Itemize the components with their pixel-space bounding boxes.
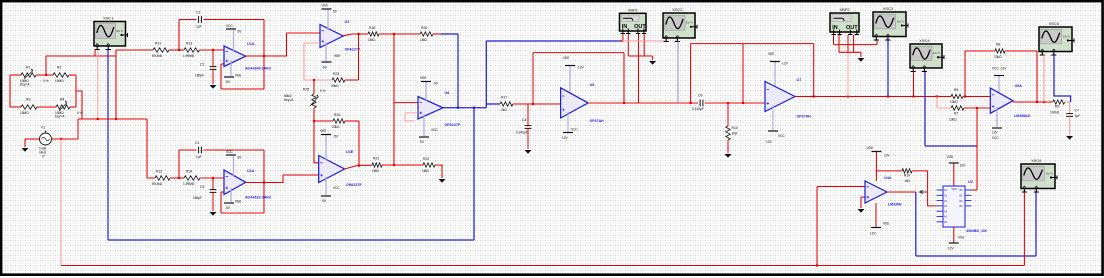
wire to U4A -in (817, 186, 865, 188)
wire XBP2 IN- (838, 35, 840, 52)
svg-text:4063BD_10V: 4063BD_10V (966, 229, 988, 233)
wire bridge right rail (75, 75, 77, 107)
wire R3 left (10, 106, 21, 108)
junction (45, 74, 47, 76)
wire U5A feedback top left (965, 50, 995, 52)
svg-text:VDD: VDD (947, 155, 954, 159)
ground G4 (439, 179, 446, 183)
svg-text:LM358AD: LM358AD (1014, 114, 1031, 118)
svg-text:VCC: VCC (778, 134, 785, 138)
svg-text:R23: R23 (333, 72, 339, 76)
junction (1036, 101, 1038, 103)
resistor R6 (951, 94, 963, 98)
wire C2 up (212, 50, 214, 67)
resistor R21 (372, 163, 382, 167)
junction (964, 95, 966, 97)
wire feedback right U1A2 (263, 150, 265, 213)
svg-text:-5V: -5V (433, 82, 439, 86)
VCC bar U3 (322, 8, 332, 10)
wire U7 out long (795, 96, 951, 98)
svg-text:VEE: VEE (320, 129, 326, 133)
wire R13 to opamp (200, 49, 225, 51)
wire to R12 (147, 119, 152, 178)
svg-text:180pF: 180pF (193, 196, 202, 200)
junction (690, 102, 692, 104)
capacitor C5 (210, 190, 217, 193)
svg-text:R19: R19 (904, 173, 910, 177)
op-amp U7 (765, 82, 795, 112)
wire U7 feedback top (743, 43, 814, 45)
op-amp U3 (320, 25, 343, 48)
wire R25 bottom (313, 108, 315, 121)
ground G6 (649, 61, 656, 65)
VEE bar U8 (565, 65, 575, 67)
svg-text:59.3kΩ: 59.3kΩ (152, 54, 163, 58)
junction (178, 177, 180, 179)
wire XSC5 B (blue) (1054, 55, 1071, 102)
wire C7 down (1069, 116, 1071, 135)
wire U4A VDD stem (875, 152, 877, 181)
wire R7 junction down to U2 (976, 108, 978, 190)
wire blue dropper x474 (473, 108, 475, 240)
wire U4A input from bus (816, 187, 818, 266)
svg-text:VCC: VCC (431, 128, 438, 132)
svg-text:-5V: -5V (225, 206, 231, 210)
svg-text:OPA227P: OPA227P (346, 183, 362, 187)
svg-text:1.99MΩ: 1.99MΩ (183, 182, 195, 186)
svg-text:R13: R13 (186, 42, 192, 46)
svg-text:C3: C3 (196, 11, 200, 15)
wire top rail (46, 55, 116, 57)
junction (178, 49, 180, 51)
IC U2 4063BD (937, 186, 972, 227)
capacitor C7 (1066, 114, 1073, 117)
wire blue R20 to riser (441, 33, 458, 35)
wire R12-R14 (170, 177, 184, 179)
wire to R24 (314, 120, 333, 122)
VCC bar U7 (768, 130, 778, 132)
svg-text:R17: R17 (501, 96, 507, 100)
svg-text:ADA4622-2ARZ: ADA4622-2ARZ (245, 196, 272, 200)
svg-text:10kΩ: 10kΩ (950, 100, 958, 104)
svg-text:R10: R10 (732, 126, 738, 130)
svg-text:-5V: -5V (225, 80, 231, 84)
svg-text:C7: C7 (1075, 109, 1079, 113)
VCC bar U6 (419, 136, 429, 138)
svg-text:V1: V1 (41, 126, 45, 130)
svg-text:R9: R9 (1055, 105, 1059, 109)
wire C5 down (212, 192, 214, 211)
resistor R19 (902, 169, 912, 173)
svg-text:C4: C4 (522, 118, 526, 122)
wire XSC3 B (blue) (887, 41, 889, 97)
wire (652, 56, 654, 60)
junction (97, 118, 99, 120)
svg-text:Key=A: Key=A (20, 83, 30, 87)
wire U6 +in (salmon) (405, 112, 418, 114)
wire R4 right (70, 106, 76, 108)
ground G8 (857, 58, 864, 62)
svg-text:0 %: 0 % (320, 89, 326, 93)
svg-text:VCC: VCC (333, 186, 340, 190)
oscilloscope XSC5 (1039, 21, 1074, 55)
wire U8 out (588, 102, 698, 104)
wire blue riser x486 (485, 41, 487, 108)
junction (813, 95, 815, 97)
wire lower rail (78, 118, 147, 120)
wire U3 out (343, 34, 368, 36)
VSS bar U2 (949, 242, 959, 244)
junction (313, 79, 315, 81)
wire XSC4 A (913, 72, 915, 97)
VEE bar U1A2 (224, 202, 234, 204)
wire to U1E -in (314, 121, 319, 163)
junction (976, 107, 978, 109)
svg-text:VCC -12V: VCC -12V (992, 67, 1007, 71)
junction (115, 118, 117, 120)
wire R1-R2 (36, 74, 53, 76)
op-amp U1E (319, 156, 345, 183)
svg-text:12V: 12V (562, 136, 569, 140)
svg-text:OPA227P: OPA227P (445, 123, 461, 127)
ground G9 (1066, 136, 1073, 140)
resistor R20 (420, 32, 433, 36)
svg-text:-12V: -12V (577, 66, 585, 70)
svg-text:U1A: U1A (247, 42, 255, 46)
wire R14 to opamp2 (200, 177, 224, 179)
svg-text:1.99MΩ: 1.99MΩ (183, 54, 195, 58)
wire (405, 113, 414, 121)
resistor R11 (153, 48, 169, 52)
svg-text:XBP1: XBP1 (628, 7, 639, 12)
wire feedback to +in U1A2 (220, 192, 222, 213)
svg-text:XSC1: XSC1 (103, 16, 114, 21)
svg-text:R1: R1 (26, 66, 30, 70)
wire (860, 52, 862, 57)
svg-text:U8: U8 (590, 83, 595, 87)
wire C4 up (527, 104, 529, 126)
wire U3 -in (304, 42, 320, 44)
wire XSC6 A down (1023, 192, 1025, 266)
wire to R7 (salmon) (936, 97, 938, 109)
resistor R13 (184, 48, 200, 52)
wire U5A feedback left (964, 51, 966, 97)
wire XBP2 OUT- (853, 35, 855, 52)
potentiometer R4 (56, 105, 70, 109)
junction (60, 138, 62, 140)
wire C1 left (179, 149, 197, 151)
resistor R17 (500, 102, 513, 106)
junction (1043, 101, 1045, 103)
VEE bar U3 (322, 61, 332, 63)
wire (972, 189, 978, 191)
svg-text:Key=A: Key=A (55, 115, 65, 119)
svg-text:R8: R8 (996, 43, 1000, 47)
svg-text:VCC: VCC (571, 128, 578, 132)
svg-text:U6: U6 (445, 91, 450, 95)
wire U2 VSS (953, 227, 955, 243)
svg-text:VCC: VCC (226, 150, 233, 154)
wire long riser x394 (393, 34, 395, 165)
junction (457, 107, 459, 109)
oscilloscope XSC6 (1021, 158, 1057, 192)
wire U1A out to U3 (246, 33, 320, 56)
wire XSC4 B down (924, 72, 926, 146)
oscilloscope XSC2 (663, 7, 697, 42)
wire (221, 63, 224, 65)
wire salmon to XSC2 A (621, 40, 666, 42)
svg-text:1kΩ: 1kΩ (732, 132, 738, 136)
svg-text:VEE: VEE (235, 200, 241, 204)
AC source V1 (40, 131, 52, 146)
ground G11 arrow (920, 190, 928, 194)
junction (623, 102, 625, 104)
svg-text:R18: R18 (369, 26, 375, 30)
potentiometer R1 (21, 73, 36, 77)
junction (621, 40, 623, 42)
wire to U7 box (691, 43, 743, 45)
junction (473, 107, 475, 109)
svg-text:10MΩ: 10MΩ (20, 111, 29, 115)
svg-text:R6: R6 (954, 88, 958, 92)
svg-text:C5: C5 (200, 185, 204, 189)
svg-text:OP37AH: OP37AH (797, 115, 812, 119)
svg-text:R11: R11 (155, 42, 161, 46)
wire to ground (24, 139, 26, 147)
wire R21-R22 (382, 164, 423, 166)
junction (742, 102, 744, 104)
svg-text:VSS: VSS (958, 236, 964, 240)
wire U3 feedback left (304, 43, 332, 80)
wire (152, 177, 155, 179)
svg-text:VEE: VEE (420, 76, 426, 80)
wire (860, 197, 862, 208)
bode plotter XBP2 (830, 7, 859, 35)
svg-text:1µF: 1µF (196, 155, 202, 159)
svg-text:XSC6: XSC6 (1031, 158, 1042, 163)
wire XSC2 B (lavender) (677, 42, 679, 104)
svg-text:U1E: U1E (346, 150, 354, 154)
svg-text:0 %: 0 % (43, 79, 49, 83)
op-amp U1A (224, 46, 246, 67)
wire V1 right (52, 138, 79, 140)
wire U5A feedback top right (1005, 50, 1037, 52)
wire C3 left (179, 19, 197, 21)
bode plotter XBP1 (620, 7, 647, 33)
wire U2 to XSC6 B vertical (915, 192, 917, 256)
wire U8 feedback left (532, 53, 534, 104)
junction (263, 181, 265, 183)
svg-text:Ext Tr: Ext Tr (686, 21, 693, 25)
ground G5 (525, 150, 532, 154)
wire R24 to U1E out (358, 121, 360, 165)
wire R17 to U8 (513, 103, 561, 105)
svg-text:VCC: VCC (992, 136, 999, 140)
svg-text:VDD: VDD (867, 146, 874, 150)
junction (727, 102, 729, 104)
wire feedback bottom U1A2 (221, 212, 264, 214)
svg-text:R4: R4 (60, 98, 64, 102)
VEE bar U5A (992, 127, 1002, 129)
wire XBP2 OUT+ (847, 35, 849, 52)
wire V1 to bottom bus (salmon) (60, 139, 62, 266)
resistor R22 (423, 163, 435, 167)
capacitor C3 (199, 16, 202, 23)
svg-text:R25: R25 (303, 88, 309, 92)
svg-text:0.240µF: 0.240µF (516, 131, 528, 135)
VEE bar U6 (421, 81, 431, 83)
wire (221, 191, 224, 193)
wire R2 right (69, 74, 76, 76)
svg-text:ADA4843-1ARZ: ADA4843-1ARZ (245, 67, 272, 71)
junction (816, 264, 818, 266)
wire R10 up (727, 103, 729, 126)
wire U2 VDD (953, 164, 955, 187)
wire R25 top (313, 80, 315, 94)
svg-text:VEE: VEE (883, 222, 889, 226)
VCC bar U1A2 (226, 154, 236, 156)
junction (847, 95, 849, 97)
wire feedback bottom U1A (221, 88, 264, 90)
svg-text:XSC3: XSC3 (883, 6, 894, 11)
wire to XSC3 A (834, 44, 878, 46)
ground G10 (858, 209, 865, 213)
wire C9 to U7 (705, 102, 765, 104)
wire XBP1 IN- (627, 34, 629, 56)
svg-text:R24: R24 (334, 113, 340, 117)
resistor R8 (995, 49, 1005, 53)
junction (357, 33, 359, 35)
oscilloscope XSC4 (910, 38, 944, 72)
junction (212, 177, 214, 179)
wire R9 to C7 (1065, 102, 1070, 114)
wire U8 feedback right (623, 53, 625, 103)
wire long blue horizontal (486, 40, 621, 42)
wire U4A +in (861, 196, 865, 198)
wire C1 up (178, 150, 180, 178)
wire U7 feedback right (813, 44, 815, 97)
resistor R18 (368, 32, 379, 36)
wire U3 feedback right (358, 34, 360, 80)
VCC bar U8 (563, 132, 573, 134)
svg-text:C1: C1 (195, 141, 199, 145)
wire R23 right (345, 79, 359, 81)
op-amp U6 (418, 97, 443, 120)
wire XBP1 IN+ (622, 34, 624, 41)
ground G1 (22, 148, 29, 152)
wire VDD stem to R19 (876, 170, 902, 172)
wire XBP2 IN+ (833, 35, 835, 45)
svg-text:1µF: 1µF (196, 25, 202, 29)
wire U1A2 out to U1E (246, 175, 319, 183)
svg-text:U7: U7 (797, 78, 802, 82)
junction (936, 95, 938, 97)
resistor R24 (333, 119, 345, 123)
wire R7 to U5A +in (964, 107, 990, 109)
capacitor C1 (199, 147, 202, 154)
svg-text:-5V: -5V (333, 135, 339, 139)
svg-text:12V: 12V (766, 140, 773, 144)
wire XSC6 B (1035, 192, 1037, 256)
wire U6 out (blue) (443, 107, 486, 109)
svg-text:12V: 12V (884, 154, 891, 158)
wire R18-R20 (379, 33, 420, 35)
wire U4A VEE stem (875, 203, 877, 228)
svg-text:10MΩ: 10MΩ (55, 79, 64, 83)
svg-text:VDD: VDD (951, 188, 956, 191)
svg-text:VEE: VEE (563, 56, 569, 60)
svg-text:-12V: -12V (947, 247, 955, 251)
svg-text:U5A: U5A (1015, 84, 1023, 88)
wire R19 to U2 (912, 171, 937, 206)
junction (393, 33, 395, 35)
VDD bar U2 (949, 162, 959, 164)
svg-text:1MΩ: 1MΩ (368, 38, 375, 42)
wire XSC2 A stub (665, 40, 667, 43)
wire feedback right U1A (263, 20, 265, 90)
VCC bar U1A (226, 28, 236, 30)
wire C5 up (212, 178, 214, 190)
resistor R23 (332, 78, 345, 82)
svg-text:R22: R22 (423, 157, 429, 161)
wire XSC1 A2 (salmon) (97, 50, 99, 119)
svg-text:U4A: U4A (884, 176, 892, 180)
svg-text:OP37AH: OP37AH (590, 119, 605, 123)
svg-text:100kΩ: 100kΩ (1050, 111, 1060, 115)
VCC bar U5A (994, 75, 1004, 77)
wire (10, 74, 21, 76)
wire rail down to R1R2 (45, 56, 47, 75)
VEE bar U7 (770, 61, 780, 63)
wire R22 to ground (435, 165, 442, 178)
svg-text:C2: C2 (200, 62, 204, 66)
wire U8 feedback top (533, 52, 624, 54)
svg-text:20kΩ: 20kΩ (331, 84, 339, 88)
wire C3 up (178, 20, 180, 51)
wire blue riser x458 (457, 34, 459, 108)
svg-text:Ext Tr: Ext Tr (1046, 171, 1053, 175)
svg-text:VCC: VCC (322, 4, 329, 8)
wire to ground G6 (628, 55, 652, 57)
wire XSC3 A stub (876, 41, 878, 45)
svg-text:1MΩ: 1MΩ (420, 38, 427, 42)
resistor R3 (21, 105, 37, 109)
wire U4A out (887, 191, 916, 193)
svg-text:10kΩ: 10kΩ (994, 55, 1002, 59)
svg-text:0 %: 0 % (77, 111, 83, 115)
svg-text:-12V: -12V (781, 62, 789, 66)
svg-text:Ext Tr: Ext Tr (897, 19, 904, 23)
svg-text:180pF: 180pF (195, 74, 204, 78)
wire XSC1 B down (blue) (107, 50, 109, 240)
svg-text:IN: IN (832, 25, 838, 31)
junction (887, 95, 889, 97)
wire R10 down (727, 140, 729, 153)
wire XSC1 A (94, 50, 96, 56)
potentiometer R25 (312, 94, 316, 108)
svg-text:R3: R3 (26, 98, 30, 102)
svg-text:12V: 12V (960, 164, 967, 168)
ground G3 (210, 212, 217, 216)
svg-text:VEE: VEE (235, 74, 241, 78)
svg-text:VEE: VEE (334, 54, 340, 58)
svg-text:R12: R12 (156, 170, 162, 174)
wire R3-R4 (37, 106, 56, 108)
svg-text:LM339N: LM339N (888, 203, 902, 207)
op-amp U8 (561, 88, 589, 118)
op-amp U5A (990, 88, 1013, 113)
svg-text:20kΩ: 20kΩ (332, 125, 340, 129)
